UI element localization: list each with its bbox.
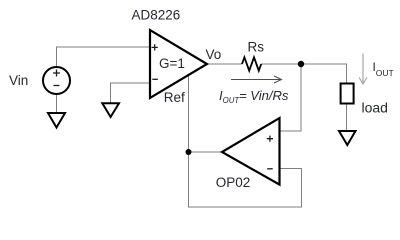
wire Vo apex to Rs <box>206 63 242 65</box>
current arrow IOUT <box>359 54 367 85</box>
svg-text:OUT: OUT <box>376 68 394 78</box>
U1 plus input sign <box>152 44 158 50</box>
wire AD8226 -IN to ground <box>111 83 151 103</box>
op-amp U1 AD8226 <box>150 30 207 98</box>
ground (under Vin) <box>48 113 65 128</box>
svg-text:AD8226: AD8226 <box>132 7 181 22</box>
ground (under load) <box>339 131 356 145</box>
wire load to ground <box>346 104 348 132</box>
svg-text:Rs: Rs <box>248 40 265 55</box>
svg-text:Vin: Vin <box>9 73 28 88</box>
wire Rs to load corner <box>261 64 347 84</box>
svg-text:Vo: Vo <box>206 47 222 62</box>
source minus sign <box>54 85 60 87</box>
wire OP02 feedback loop <box>189 152 302 207</box>
source plus sign <box>53 70 60 77</box>
load resistor <box>341 84 354 104</box>
svg-text:load: load <box>362 100 388 116</box>
resistor Rs <box>242 57 261 70</box>
voltage source Vin <box>43 67 70 94</box>
junction node A (Rs/load/OP02+) <box>298 61 304 67</box>
U2 minus input sign <box>267 168 273 170</box>
node B dot (Ref/feedback junction) <box>186 149 192 155</box>
current direction arrow <box>231 76 282 83</box>
ground (under AD8226 -IN) <box>102 103 119 117</box>
U2 plus input sign <box>267 136 273 142</box>
svg-text:OP02: OP02 <box>216 175 251 190</box>
wire node to OP02 +IN <box>280 64 302 131</box>
op-amp U2 OP02 <box>222 118 280 185</box>
wire OP02 output to node B <box>189 151 223 153</box>
U1 minus input sign <box>152 78 158 80</box>
svg-text:Ref: Ref <box>164 90 185 105</box>
svg-text:G=1: G=1 <box>159 56 185 71</box>
wire AD8226 Ref to node B <box>188 75 190 152</box>
wire Vin- to ground <box>56 94 58 113</box>
wire Vin+ to AD8226 +IN <box>57 47 151 67</box>
